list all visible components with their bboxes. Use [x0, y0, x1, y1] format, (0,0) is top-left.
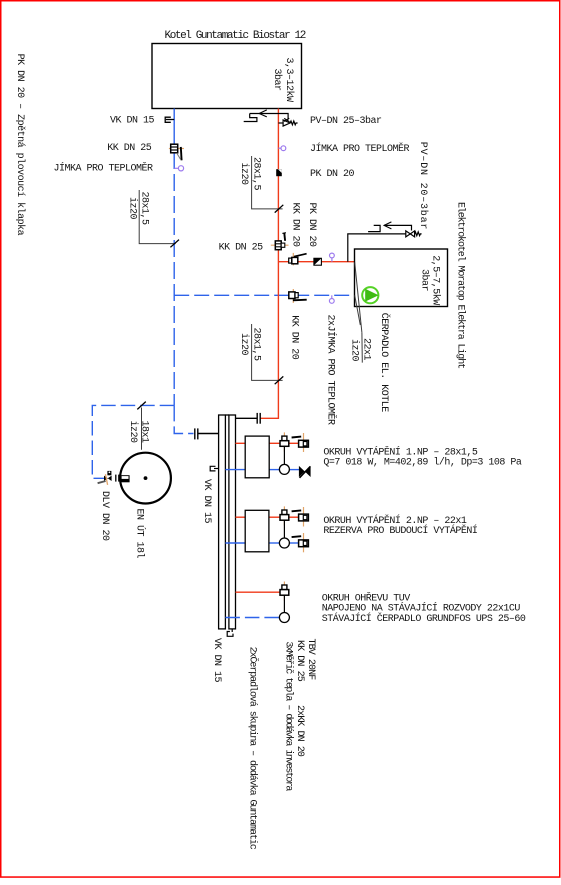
wire: blue dashed branch to expansion vessel	[92, 405, 174, 478]
svg-text:JÍMKA PRO TEPLOMĚR: JÍMKA PRO TEPLOMĚR	[54, 161, 154, 175]
wire red C3	[236, 591, 281, 593]
manifold bottom vent	[227, 629, 233, 636]
thermostat sensor line with arrow at B1 outlet	[244, 110, 288, 122]
thermometer well on red line	[278, 146, 285, 151]
svg-text:KK DN 20: KK DN 20	[289, 315, 300, 360]
expansion vessel EN UT 18l	[120, 453, 171, 504]
svg-text:2xČerpadlová skupina – dodávka: 2xČerpadlová skupina – dodávka Guntamati…	[247, 647, 261, 850]
wire: red supply main from B1, vertical x=278.4	[260, 109, 279, 419]
svg-text:EN ÚT 18l: EN ÚT 18l	[134, 509, 148, 559]
pump group box C2	[245, 510, 269, 552]
svg-text:JÍMKA PRO TEPLOMĚR: JÍMKA PRO TEPLOMĚR	[310, 141, 410, 155]
svg-text:KK DN 25: KK DN 25	[219, 242, 264, 253]
safety valve PV-DN 25-3bar on red line	[278, 118, 297, 126]
dimension leader 28x1,5 iz20 on blue line	[139, 190, 179, 247]
thermometer well (jimka) on blue line	[174, 166, 183, 171]
svg-text:18x1: 18x1	[139, 420, 150, 443]
svg-text:PK DN 20: PK DN 20	[306, 203, 317, 248]
wire: blue return main from B1, vertical x=174.2 dashed	[173, 109, 175, 153]
svg-text:3bar: 3bar	[419, 269, 431, 292]
B2 safety group pipe	[348, 234, 406, 262]
dimension leader 18x1 iz20	[137, 402, 146, 450]
svg-text:PK DN 20 – Zpětná plovoucí kla: PK DN 20 – Zpětná plovoucí klapka	[14, 54, 26, 236]
wire: blue dashed return branch to elektrokotel y=295.3	[174, 294, 354, 296]
pump group box C1	[245, 436, 269, 478]
wire blue dashed C3	[225, 617, 279, 619]
vent valve VK DN 15 on blue line	[165, 117, 174, 122]
svg-text:TBV 20NF: TBV 20NF	[305, 639, 316, 681]
wire blue C1	[225, 469, 299, 471]
wire: red supply branch to elektrokotel y=261.7	[278, 261, 354, 263]
valve (lollipop) C3 red	[280, 582, 289, 601]
svg-text:28x1,5: 28x1,5	[250, 327, 261, 361]
balancing valve C1 red with handle	[292, 433, 309, 452]
svg-text:iz20: iz20	[348, 339, 360, 362]
svg-text:VK DN 15: VK DN 15	[201, 479, 212, 524]
check valve PK DN 20 on red line (filled square)	[276, 169, 282, 176]
valve C2 blue with handle	[292, 533, 309, 552]
svg-text:22x1: 22x1	[361, 338, 372, 361]
ball valve KK DN 20 on red branch	[289, 253, 307, 266]
dimension leader 28x1,5 iz20 on red line	[252, 156, 284, 213]
svg-text:3bar: 3bar	[271, 68, 283, 91]
svg-text:Q=7 018 W, M=402,89 l/h, Dp=3: Q=7 018 W, M=402,89 l/h, Dp=3 108 Pa	[323, 457, 522, 469]
check valve on red branch (half filled)	[314, 258, 322, 265]
ball valve KK DN 25 on red vertical line	[271, 233, 289, 250]
svg-text:DLV DN 20: DLV DN 20	[99, 491, 110, 541]
svg-text:iz20: iz20	[238, 162, 250, 185]
valve DLV at vessel	[98, 471, 112, 485]
svg-text:iz20: iz20	[238, 333, 250, 356]
manifold vent left VK DN 15	[210, 466, 218, 471]
svg-text:KK DN 25: KK DN 25	[107, 143, 152, 154]
pump C3 (existing)	[283, 595, 285, 612]
svg-text:PV–DN 25–3bar: PV–DN 25–3bar	[310, 115, 382, 127]
svg-text:VK DN 15: VK DN 15	[110, 115, 155, 126]
leader lines to 22x1 label	[355, 262, 363, 362]
svg-text:PV–DN 20–3bar: PV–DN 20–3bar	[417, 142, 429, 230]
ball valve KK DN 20 on blue branch	[289, 289, 307, 303]
wire red C1	[236, 442, 299, 444]
boiler B2 Elektrokotel Moratop Elektra Light	[355, 249, 448, 307]
svg-text:iz20: iz20	[127, 197, 139, 220]
svg-text:ČERPADLO EL. KOTLE: ČERPADLO EL. KOTLE	[378, 313, 392, 413]
svg-text:KK DN 25: KK DN 25	[294, 640, 305, 682]
flange pair on red to manifold	[236, 413, 261, 424]
svg-text:STÁVAJÍCÍ ČERPADLO GRUNDFOS UP: STÁVAJÍCÍ ČERPADLO GRUNDFOS UPS 25–60	[322, 611, 526, 625]
svg-text:28x1,5: 28x1,5	[250, 157, 261, 191]
thermometer well on blue branch	[329, 295, 334, 303]
svg-text:OKRUH VYTÁPĚNÍ 1.NP – 28x1,5: OKRUH VYTÁPĚNÍ 1.NP – 28x1,5	[323, 444, 478, 458]
svg-text:REZERVA PRO BUDOUCÍ VYTÁPĚNÍ: REZERVA PRO BUDOUCÍ VYTÁPĚNÍ	[323, 523, 477, 537]
svg-text:3xMěřič tepla – dodávka invest: 3xMěřič tepla – dodávka investora	[282, 641, 294, 791]
B2 thermostat sensor with arrow	[368, 222, 411, 232]
svg-text:VK DN 15: VK DN 15	[211, 638, 222, 683]
manifold bars	[219, 415, 226, 629]
wire blue C2	[225, 542, 298, 544]
svg-text:2xJÍMKA PRO TEPLOMĚR: 2xJÍMKA PRO TEPLOMĚR	[324, 315, 338, 426]
strainer/filter C1 (dark)	[299, 466, 311, 478]
svg-text:Elektrokotel Moratop Elektra L: Elektrokotel Moratop Elektra Light	[454, 202, 466, 368]
wire red C2	[236, 516, 299, 518]
pump C2	[283, 520, 285, 538]
membrane connection block	[121, 475, 130, 482]
svg-text:Kotel Guntamatic Biostar 12: Kotel Guntamatic Biostar 12	[165, 30, 306, 42]
balancing valve C2 red with handle	[292, 507, 309, 527]
flange pair on blue to manifold	[195, 428, 219, 439]
svg-text:3,3–12kW: 3,3–12kW	[283, 57, 295, 102]
valve (lollipop) C1 red	[280, 432, 289, 451]
svg-text:2,5–7,5kW: 2,5–7,5kW	[430, 255, 442, 305]
svg-text:KK DN 20: KK DN 20	[290, 203, 301, 248]
B2 safety valve PV with spring	[406, 231, 422, 237]
ball valve KK DN 25 on blue line	[169, 144, 184, 160]
svg-text:OKRUH OHŘEVU TUV: OKRUH OHŘEVU TUV	[322, 590, 411, 604]
wire: blue return down to manifold	[174, 405, 193, 433]
boiler B1 Kotel Guntamatic Biostar 12	[152, 44, 302, 109]
svg-text:iz20: iz20	[127, 420, 139, 443]
svg-text:28x1,5: 28x1,5	[139, 191, 150, 225]
svg-text:PK DN 20: PK DN 20	[310, 169, 355, 180]
svg-text:OKRUH VYTÁPĚNÍ 2.NP – 22x1: OKRUH VYTÁPĚNÍ 2.NP – 22x1	[323, 513, 467, 527]
dimension leader lower 28x1,5 iz20 on red line	[252, 324, 284, 384]
pump C1	[283, 446, 285, 464]
flange ticks at vessel	[116, 475, 119, 482]
svg-text:2xKK DN 20: 2xKK DN 20	[294, 705, 305, 757]
svg-text:NAPOJENO NA STÁVAJÍCÍ ROZVODY: NAPOJENO NA STÁVAJÍCÍ ROZVODY 22x1CU	[322, 601, 521, 615]
pump B2 (green)	[362, 287, 378, 303]
valve (lollipop) C2 red	[280, 506, 289, 525]
thermometer well on red branch	[330, 253, 335, 262]
